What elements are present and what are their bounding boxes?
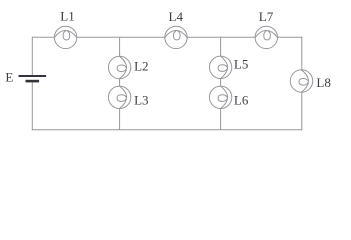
svg-text:L3: L3 [134, 93, 148, 108]
svg-text:L5: L5 [234, 56, 248, 71]
svg-text:L2: L2 [134, 58, 148, 73]
svg-text:L8: L8 [316, 75, 330, 90]
svg-text:L1: L1 [60, 9, 74, 24]
svg-text:L4: L4 [169, 9, 184, 24]
svg-text:L6: L6 [234, 93, 249, 108]
svg-text:L7: L7 [259, 9, 274, 24]
svg-text:E: E [5, 69, 13, 84]
